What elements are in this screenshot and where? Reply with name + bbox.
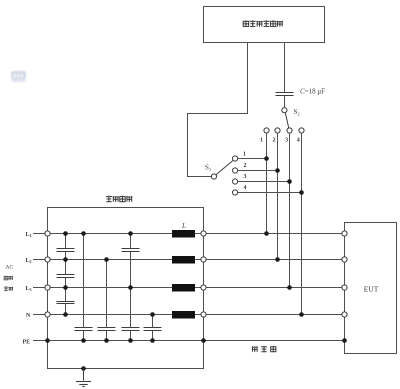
svg-text:3: 3 [244,174,247,180]
rail L2 [33,259,344,261]
capacitor C top of column 4 [122,249,140,252]
junction dots column 2 [81,231,86,343]
selector contact 1 (left column) [233,156,238,161]
capacitor column 4: L1-cap-L3-cap-PE at x=130.5 [130,234,132,341]
EUT PE junction dot [342,338,347,343]
svg-text:L2: L2 [26,258,32,264]
rail L3 [33,287,344,289]
junction dots column 4 [128,231,133,343]
svg-text:3: 3 [285,137,288,143]
svg-text:4: 4 [244,185,247,191]
inductor on L2 [172,256,195,264]
svg-text:EUT: EUT [364,285,379,294]
selector contact 1 (top row) [264,128,269,133]
ground wire stub [83,369,85,381]
svg-text:PE: PE [23,340,31,346]
svg-text:2: 2 [244,163,247,169]
capacitor C bottom of column 4 [122,328,140,331]
switch S2 blade [285,113,289,129]
EUT input terminals [342,231,347,317]
capacitor C L1-PE [75,328,93,331]
top row pin numbers 1 2 3 4 [260,137,300,143]
svg-text:L1: L1 [26,232,32,238]
svg-text:C=18 μF: C=18 μF [300,87,325,95]
svg-text:N: N [26,313,31,319]
switch S1 [211,174,216,179]
junction dots on V1..V4 [264,156,269,161]
wire V1: contact1 to L1 [266,133,268,234]
wire from contact2 to V2 [238,170,278,172]
inductor on L3 [172,284,195,292]
selector contact 2 (top row) [275,128,280,133]
generator box label 组合波发生器 [243,20,283,26]
capacitor column 2: L1 to PE at x=83.5 [83,234,85,341]
wire: generator to S1 [188,43,248,177]
PE junction dot at box right edge [201,338,206,343]
selector contact 4 (top row) [299,128,304,133]
capacitor C=18uF [276,93,294,96]
svg-text:1: 1 [260,137,263,143]
capacitor C L1-L2 [57,249,75,252]
capacitor C L2-PE [98,328,116,331]
decoupling network box [48,208,204,369]
rail PE [33,340,344,342]
wire V2: contact2 to L2 [277,133,279,260]
PE junction dot at box left edge [45,338,50,343]
label 参考地 (reference ground) [252,346,276,352]
switch S1 blade [216,160,234,175]
decoupling network label 去耦网络 [106,196,133,202]
left column wire numbers 1 2 3 4 [243,151,247,191]
rail N [33,314,344,316]
junction dots column 3 [104,257,109,343]
inductor L on L1 [172,230,195,238]
rail L1 [33,233,344,235]
capacitor C L2-L3 [57,275,75,278]
wire from contact3 to V3 [238,181,290,183]
EUT box [345,223,397,354]
rail junction dots (V1..V4 terminations) [264,231,304,317]
wire V4: contact4 to N [301,133,303,315]
junction dots column 1 [63,231,68,317]
wire from contact1 to V1 [238,158,267,160]
svg-text:2: 2 [273,137,276,143]
svg-text:L: L [181,222,186,230]
capacitor C L3-N [57,302,75,304]
selector contact 3 (top row) [287,128,292,133]
right edge terminals of decoupling box [201,231,206,317]
svg-text:AC: AC [6,264,14,270]
wire V3: contact3 to L3 [289,133,291,288]
capacitor column 3: L2 to PE at x=106.5 [106,260,108,341]
selector contact 2 (left column) [233,168,238,173]
ground junction dot on box bottom [81,366,86,371]
left edge terminals of decoupling box [45,231,50,317]
inductor on N [172,311,195,319]
svg-text:4: 4 [297,137,300,143]
generator box U1 (combination wave generator) [204,7,325,43]
switch S2 [282,108,287,113]
capacitor C N-PE [144,328,162,331]
watermark logo [11,71,26,82]
wire: capacitor to S2 [284,96,286,108]
svg-text:L3: L3 [26,286,32,292]
wire from contact4 to V4 [238,192,302,194]
selector contact 3 (left column) [233,179,238,184]
selector contact 4 (left column) [233,190,238,195]
svg-text:1: 1 [243,151,246,157]
capacitor column 5: N to PE at x=152.5 [152,315,154,341]
junction dots column 5 [150,312,155,343]
label 网络 [4,286,13,291]
wire: generator to capacitor [284,43,286,93]
capacitor column 1: series chain L1-L2-L3-N at x=65.5 [65,234,67,315]
ground symbol [76,382,91,387]
label 电源 [4,276,13,281]
